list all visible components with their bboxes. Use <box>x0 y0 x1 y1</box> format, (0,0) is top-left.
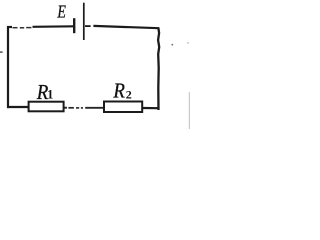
svg-text:R: R <box>112 80 124 103</box>
svg-text:E: E <box>57 3 67 22</box>
svg-text:2: 2 <box>126 88 132 102</box>
svg-text:1: 1 <box>47 88 53 102</box>
